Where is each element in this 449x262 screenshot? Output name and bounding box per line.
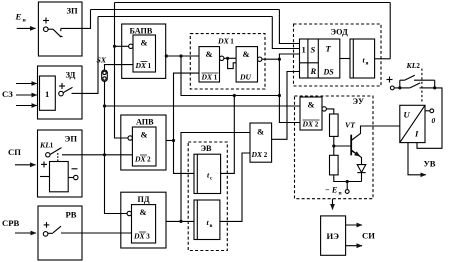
contact ЗП	[44, 27, 49, 32]
svg-text:&: &	[141, 38, 148, 48]
label + ЭП	[41, 161, 47, 167]
svg-text:2: 2	[315, 121, 319, 129]
svg-text:DX: DX	[133, 232, 145, 241]
wire DU output jog up to ЭОД S input 3	[279, 54, 299, 59]
wire ЗД output riser	[82, 17, 98, 94]
label + РВ	[44, 222, 50, 228]
node АПВ output	[172, 139, 175, 142]
svg-text:ЭУ: ЭУ	[353, 97, 365, 106]
svg-text:СП: СП	[8, 147, 21, 157]
wire KL2 to U/I bottom	[417, 88, 442, 148]
svg-text:ЗД: ЗД	[66, 70, 76, 80]
wire base node to VT base	[334, 145, 351, 147]
svg-text:в: в	[210, 223, 213, 229]
wire БАПВ branch down to 95.5 line	[181, 56, 279, 96]
svg-text:РВ: РВ	[66, 210, 77, 220]
node SX / horizontal bus	[103, 104, 106, 107]
overline DX2 ЭУ (full)	[303, 119, 320, 121]
wire Е_н input arrow	[17, 27, 36, 29]
svg-text:DX: DX	[302, 120, 314, 129]
jumper SX	[102, 70, 108, 81]
wire DU output	[262, 58, 280, 60]
wire R1 bottom to base node	[333, 136, 335, 155]
svg-text:ИЭ: ИЭ	[327, 231, 340, 241]
wire ЭОД trigger output to t_я	[340, 58, 350, 60]
wire РВ output to ПД input 2	[61, 232, 132, 234]
svg-text:с: с	[210, 176, 213, 182]
svg-text:E: E	[15, 12, 22, 22]
svg-text:S: S	[311, 45, 316, 55]
coil ЭП	[50, 162, 69, 192]
wire УВ output arrow	[408, 143, 426, 175]
svg-text:ЭП: ЭП	[65, 134, 78, 144]
node ПД output	[179, 220, 182, 223]
svg-text:1: 1	[302, 45, 306, 55]
svg-text:2: 2	[147, 156, 151, 164]
wire DX2 output to ЭОД R input	[272, 72, 300, 140]
wire top bus y3	[98, 16, 272, 18]
svg-text:− E: − E	[325, 186, 337, 195]
contact KL2 upper	[400, 79, 405, 81]
wire VT emitter to diode	[351, 150, 361, 165]
svg-text:DS: DS	[323, 68, 335, 77]
svg-text:DX: DX	[217, 37, 230, 46]
terminal KL2 plus	[390, 86, 394, 90]
label + ЗП	[43, 18, 49, 24]
svg-text:DX: DX	[134, 155, 146, 164]
wire VT collector to U/I input	[351, 126, 400, 141]
svg-text:н: н	[23, 18, 27, 24]
gate БАПВ &	[133, 35, 156, 72]
terminal output 0	[430, 109, 434, 113]
wire R2 bottom to -Eп rail	[334, 175, 362, 182]
wire t_я output to riser	[375, 58, 391, 60]
block U/I	[400, 105, 425, 142]
resistor R1	[330, 114, 339, 136]
svg-text:DX: DX	[251, 150, 263, 159]
wire to АПВ input 2	[105, 154, 133, 156]
wire KL2 terminal to contacts	[394, 87, 400, 89]
timer t_я	[350, 39, 375, 78]
label − ЭП	[72, 168, 78, 170]
wire СРВ input arrow	[15, 232, 36, 234]
contact ЗД	[59, 91, 64, 96]
box DX1 dashed	[190, 34, 265, 89]
svg-text:ПД: ПД	[138, 195, 150, 204]
wire АПВ node up to DX1 gate1 input 2	[174, 73, 200, 140]
svg-text:п: п	[339, 191, 342, 197]
node junction y1/БАПВ branch	[113, 45, 116, 48]
block ЗП	[38, 2, 82, 56]
svg-text:R: R	[310, 66, 317, 76]
box ЭУ dashed	[295, 96, 374, 199]
wire riser y1 right end down to t_я output	[389, 3, 391, 59]
svg-text:1: 1	[50, 142, 54, 150]
svg-text:СЗ: СЗ	[2, 89, 13, 99]
overline DX1 gate1 (full)	[202, 72, 219, 74]
svg-text:1: 1	[148, 62, 152, 70]
diode VD	[357, 172, 365, 174]
node БАПВ output	[165, 54, 168, 57]
svg-text:3: 3	[146, 233, 150, 241]
timer t_в	[194, 200, 220, 240]
wire top bus y1	[115, 2, 391, 4]
svg-text:БАПВ: БАПВ	[130, 27, 153, 36]
gate DX1-1	[199, 47, 220, 82]
node t_c riser on 95.5 line	[233, 94, 236, 97]
wire jog to DU input 2	[228, 58, 237, 68]
svg-text:DX: DX	[135, 61, 147, 70]
node БАПВ output branch 2	[179, 54, 182, 57]
svg-text:1: 1	[45, 89, 49, 99]
overline DX1 БАПВ (X only)	[141, 61, 148, 63]
wire СЗ input arrows	[16, 83, 37, 85]
node -Eп junction	[346, 180, 349, 183]
svg-text:ЗП: ЗП	[67, 6, 79, 16]
gate OR 1	[40, 76, 56, 110]
wire branch to БАПВ inverted input	[115, 45, 129, 47]
label + ЗД	[59, 83, 65, 89]
svg-text:T: T	[326, 44, 332, 54]
terminal coil minus	[74, 175, 78, 179]
svg-text:I: I	[414, 129, 419, 139]
wire U/I output	[425, 110, 430, 112]
block ЗД	[38, 66, 83, 119]
box ЭВ dashed	[188, 142, 227, 251]
svg-text:&: &	[140, 207, 147, 217]
wire ЭП output	[82, 154, 105, 156]
block РВ	[38, 206, 82, 260]
wire diode bottom	[361, 173, 363, 182]
wire ЭУ gate output into R1	[326, 109, 333, 114]
contact РВ	[43, 232, 48, 237]
contact KL1	[46, 153, 50, 157]
svg-text:&: &	[308, 100, 315, 110]
svg-text:УВ: УВ	[424, 159, 436, 169]
node DU output riser on 95.5 line	[278, 94, 281, 97]
wire KL2 link dashed	[421, 69, 423, 104]
wire -Eп terminal drop	[346, 182, 348, 190]
svg-text:1: 1	[230, 38, 234, 46]
wire DX1 gate1 output to DU input	[224, 57, 236, 59]
terminal -Eп	[345, 190, 349, 194]
wire riser from y1 to АПВ input	[115, 3, 129, 139]
wire СИ arrow 1	[346, 224, 362, 226]
resistor R2	[330, 155, 339, 175]
wire СИ arrow 2	[346, 245, 362, 247]
svg-text:2: 2	[416, 62, 420, 70]
node ЭП output / SX line	[103, 153, 106, 156]
wire DU output down to ЭУ gate input 2	[279, 59, 300, 122]
wire СП input arrow	[15, 164, 36, 166]
block АПВ	[121, 115, 166, 170]
wire ПД output to t_в input	[166, 220, 194, 222]
label + KL2	[387, 77, 393, 83]
svg-text:KL: KL	[406, 61, 417, 70]
gate DU	[236, 47, 257, 82]
svg-text:СРВ: СРВ	[2, 218, 19, 228]
gate DX2	[250, 123, 272, 162]
node base junction	[332, 144, 335, 147]
wire ЗП output riser	[82, 10, 91, 29]
svg-text:я: я	[366, 61, 369, 67]
wire АПВ node down to t_c input	[174, 141, 195, 174]
wire ЭУ to ИЭ arrow	[332, 199, 334, 210]
svg-text:VT: VT	[345, 121, 356, 130]
contact KL2 lower	[400, 87, 410, 89]
svg-text:DX: DX	[201, 73, 213, 82]
svg-text:ЭОД: ЭОД	[331, 28, 349, 37]
timer t_c	[194, 154, 221, 193]
block ЭП	[38, 130, 83, 197]
wire АПВ output to node	[166, 140, 174, 142]
gate АПВ &	[132, 127, 156, 166]
block ИЭ	[321, 216, 346, 255]
svg-text:2: 2	[264, 151, 268, 159]
wire KL2 right stub	[434, 80, 436, 88]
wire t_c output riser to 95.5 line	[221, 96, 235, 174]
svg-text:АПВ: АПВ	[136, 118, 154, 127]
trigger T DS	[300, 39, 340, 78]
node DX1 gate1 output	[226, 57, 229, 60]
box ЭОД dashed	[294, 24, 382, 86]
block ПД	[121, 192, 166, 248]
svg-text:&: &	[141, 130, 148, 140]
svg-text:U: U	[404, 110, 411, 120]
overline DX3 ПД (X only)	[139, 231, 146, 233]
wire SX bottom down to ПД inverted input	[105, 81, 128, 213]
svg-text:SX: SX	[97, 56, 107, 65]
svg-text:DU: DU	[239, 73, 251, 82]
node DU output	[278, 58, 281, 61]
wire horizontal bus to ЭУ gate input 1	[105, 105, 301, 107]
wire t_в output to DX2 input 2	[220, 153, 250, 221]
transistor VT	[350, 135, 352, 156]
wire y2 down to ЭОД S input 1	[279, 10, 299, 44]
wire SX top to БАПВ input 2	[105, 65, 134, 70]
gate ЭУ &	[300, 97, 322, 130]
wire KL2 left stub	[399, 80, 401, 88]
gate ПД &	[132, 205, 156, 243]
wire ПД output riser to DX2 input 1	[181, 133, 250, 222]
svg-text:&: &	[243, 49, 250, 59]
svg-text:ЭВ: ЭВ	[201, 144, 213, 153]
svg-text:&: &	[257, 127, 264, 137]
wire БАПВ output to DX1 gate 1	[166, 55, 199, 57]
wire top bus y2	[91, 9, 280, 11]
node KL2 left	[398, 86, 401, 89]
svg-text:&: &	[206, 49, 213, 59]
svg-text:1: 1	[214, 74, 218, 82]
svg-text:KL: KL	[39, 141, 50, 150]
node KL2 right	[433, 86, 436, 89]
svg-text:0: 0	[432, 116, 436, 125]
wire y3 down to ЭОД S input 2	[272, 17, 299, 49]
block БАПВ	[122, 24, 166, 78]
svg-text:СИ: СИ	[362, 231, 375, 241]
overline DX2 АПВ (X only)	[140, 154, 147, 156]
